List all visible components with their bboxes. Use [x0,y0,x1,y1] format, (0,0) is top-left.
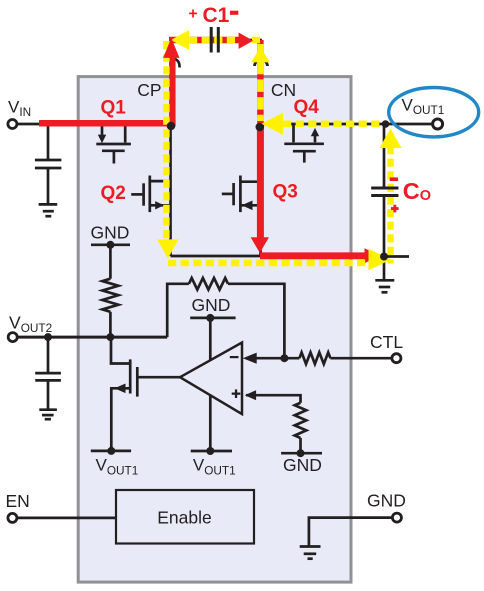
svg-text:Q1: Q1 [101,98,127,119]
svg-text:CTL: CTL [370,332,403,352]
svg-text:Q4: Q4 [294,97,320,118]
svg-text:Enable: Enable [157,508,212,528]
svg-text:GND: GND [283,455,322,475]
svg-text:GND: GND [91,222,130,242]
svg-text:+: + [189,6,198,23]
svg-text:EN: EN [6,491,30,511]
svg-text:Q3: Q3 [273,182,298,203]
svg-text:C1: C1 [203,4,230,27]
svg-text:Q2: Q2 [101,183,126,204]
svg-text:CP: CP [137,80,161,100]
svg-text:GND: GND [192,295,231,315]
svg-text:CN: CN [271,80,296,100]
svg-text:GND: GND [367,491,406,511]
